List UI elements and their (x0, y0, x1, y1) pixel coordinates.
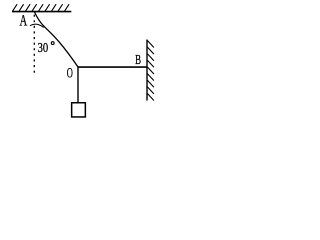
weight block (square) (72, 103, 86, 117)
degree symbol (51, 42, 54, 45)
angle arc (30, 24, 44, 27)
rope A-O (slanted) (35, 12, 79, 67)
svg-text:30: 30 (38, 41, 49, 56)
label B (135, 52, 141, 67)
svg-text:O: O (67, 66, 73, 82)
dotted vertical reference line from suspension point (33, 15, 35, 73)
right wall line (146, 40, 148, 101)
ceiling line (12, 11, 71, 13)
label 30 (degrees value) (38, 41, 49, 56)
rope O-B (horizontal) (78, 66, 148, 68)
rope from O down to weight (77, 67, 79, 102)
wall hatching (147, 41, 154, 101)
label A (20, 12, 28, 29)
label O (67, 66, 73, 82)
svg-text:B: B (135, 52, 141, 67)
svg-text:A: A (20, 12, 28, 29)
ceiling hatching (13, 4, 70, 11)
